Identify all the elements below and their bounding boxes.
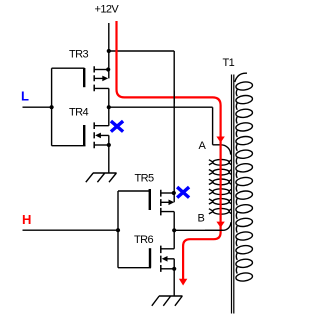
- red current path from +12V: [117, 21, 221, 230]
- svg-text:+12V: +12V: [95, 4, 120, 16]
- svg-text:TR6: TR6: [134, 234, 153, 246]
- transistor TR5 drain stub: [161, 212, 174, 231]
- transformer secondary turns: [235, 81, 252, 282]
- wire TR4 source to ground: [108, 145, 110, 173]
- transistor TR5 source stub: [161, 192, 174, 194]
- wire TR6 source to ground: [173, 269, 175, 296]
- red current path from B through TR6: [183, 229, 221, 279]
- transistor TR6 drain stub: [161, 230, 174, 249]
- node L junction: [50, 105, 54, 109]
- transformer primary turn 5: [213, 199, 229, 205]
- transistor TR4 gate bar: [83, 125, 85, 146]
- transistor TR3 source stub: [94, 69, 109, 71]
- node TR5 source dot: [172, 191, 176, 195]
- X mark TR4 off: [112, 122, 122, 130]
- svg-text:TR3: TR3: [69, 49, 88, 61]
- transistor TR3 channel segments: [93, 66, 95, 91]
- svg-text:T1: T1: [223, 57, 235, 69]
- ground TR6: [152, 296, 183, 306]
- transistor TR3 body tie: [94, 70, 109, 79]
- red arrowhead at B: [216, 222, 224, 228]
- ground TR4: [86, 173, 117, 182]
- svg-text:L: L: [21, 88, 29, 103]
- transistor TR4 source stub: [94, 144, 109, 146]
- transistor TR4 drain stub: [94, 107, 109, 126]
- red arrowhead at ground: [179, 279, 187, 286]
- wire patch B wire over red: [205, 222, 231, 230]
- transistor TR4 body arrow: [95, 133, 101, 139]
- svg-text:B: B: [198, 213, 205, 225]
- node TR6 source dot: [172, 267, 176, 271]
- node junction on +12V rail: [107, 49, 111, 53]
- transformer primary turn 4: [213, 189, 229, 195]
- transistor TR5 body arrow: [169, 200, 175, 206]
- transistor TR4 channel segments: [93, 122, 95, 148]
- transistor TR6 gate bar: [149, 248, 151, 268]
- node TR3 source dot: [106, 67, 110, 71]
- transformer T1 core lines: [232, 75, 234, 314]
- node B output junction TR5/TR6: [172, 228, 176, 232]
- transistor TR5 gate bar: [149, 189, 151, 210]
- transistor TR4 body tie: [101, 135, 109, 145]
- svg-text:H: H: [22, 212, 31, 227]
- transistor TR3 drain stub: [94, 88, 109, 107]
- wire node to transformer B: [174, 229, 223, 231]
- wire patch rail branch over red: [173, 91, 175, 104]
- transformer primary entry arc at A: [221, 145, 231, 155]
- wire +12V lead: [108, 23, 110, 70]
- transistor TR6 channel segments: [160, 246, 162, 272]
- svg-text:A: A: [199, 140, 207, 152]
- svg-text:TR5: TR5: [135, 173, 154, 185]
- transistor TR3 body arrow: [102, 76, 108, 82]
- transistor TR6 body arrow: [162, 256, 168, 262]
- wire rail branch to TR5: [109, 51, 174, 193]
- transformer primary turn 1: [213, 159, 229, 165]
- transformer primary turn 2: [213, 169, 229, 175]
- X mark TR5 off: [178, 188, 187, 196]
- transformer primary turn 3: [213, 179, 229, 185]
- wire L input: [23, 106, 52, 108]
- wire node to transformer A: [109, 107, 221, 145]
- node H junction: [116, 228, 120, 232]
- transformer primary turn 6: [213, 208, 229, 214]
- node TR4 source dot: [107, 143, 111, 147]
- transistor TR5 body tie: [161, 193, 174, 202]
- node A output junction TR3/TR4: [107, 105, 111, 109]
- wire gate bracket TR5/TR6: [118, 191, 151, 268]
- transistor TR3 gate bar: [83, 68, 85, 87]
- transistor TR6 source stub: [161, 268, 174, 270]
- red arrowhead at A: [216, 137, 224, 143]
- wire H input: [23, 229, 119, 231]
- svg-text:TR4: TR4: [69, 107, 88, 119]
- transistor TR5 channel segments: [160, 190, 162, 216]
- wire gate bracket TR3/TR4: [52, 68, 86, 146]
- transistor TR6 body tie: [167, 259, 174, 269]
- transformer secondary entry arc: [235, 73, 247, 82]
